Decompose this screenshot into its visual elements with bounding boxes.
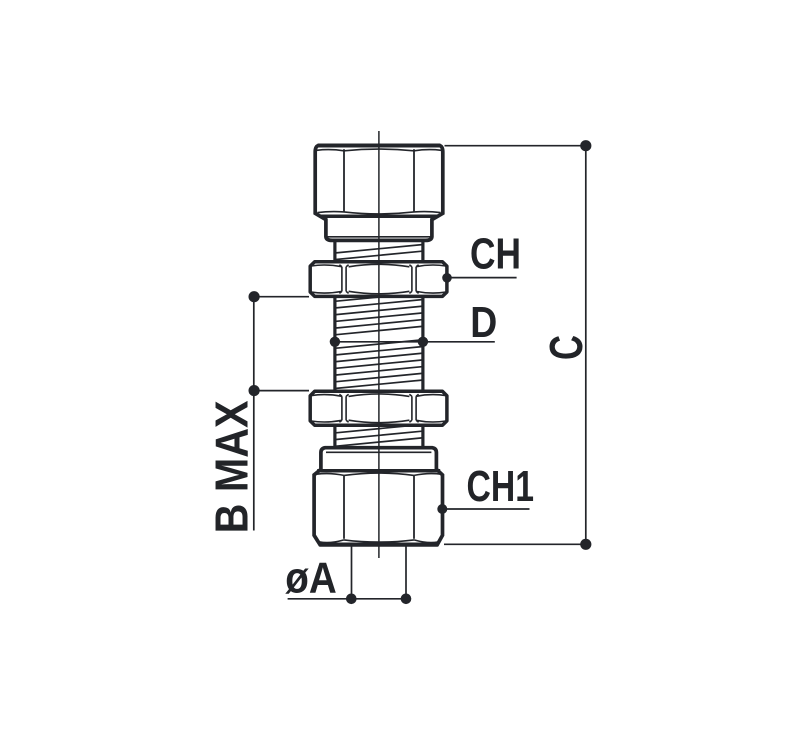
bottom nut bottom edge emphasis (320, 542, 438, 546)
B MAX bottom dot (249, 385, 260, 396)
lower bulkhead locknut facet pair right (409, 394, 418, 422)
D dimension line (335, 341, 495, 343)
lower bulkhead locknut silhouette (310, 391, 447, 425)
upper bulkhead locknut chamfer arcs (311, 264, 446, 294)
svg-text:CH: CH (470, 230, 521, 279)
bottom nut chamfer arcs top (317, 473, 442, 475)
top nut facet line left (343, 149, 345, 212)
svg-text:C: C (540, 335, 592, 360)
CH leader line (447, 277, 517, 279)
bottom nut facet line left (343, 476, 345, 539)
centerline (378, 131, 380, 558)
bottom nut silhouette (collar + hex) (314, 448, 442, 545)
main thread section (333, 296, 336, 391)
lower bulkhead locknut chamfer arcs (311, 394, 446, 423)
top nut collar bottom thin line (327, 236, 431, 238)
upper bulkhead locknut silhouette (310, 262, 447, 297)
thread section C (below lower locknut) (333, 425, 336, 447)
dimension C bottom extension line (444, 543, 586, 545)
D right dot (418, 337, 428, 347)
CH leader dot (442, 273, 452, 283)
svg-text:B MAX: B MAX (205, 400, 257, 533)
B MAX top extension line (254, 296, 309, 298)
bottom nut collar thin line (326, 451, 431, 453)
bottom nut hex top edge (317, 469, 440, 473)
diameter A right extension line (405, 547, 407, 599)
upper bulkhead locknut facet pair right (409, 265, 418, 294)
bottom nut chamfer arcs bottom (320, 540, 439, 543)
CH1 leader dot (437, 504, 447, 514)
upper bulkhead locknut facet pair left (339, 265, 348, 294)
B MAX bottom extension line (254, 390, 309, 392)
top nut top edge emphasis (318, 143, 441, 147)
top nut chamfer arcs top (317, 149, 441, 151)
thread section A (between top nut and upper locknut) (333, 241, 336, 264)
svg-text:D: D (470, 298, 497, 347)
B MAX top dot (249, 291, 260, 302)
B MAX vertical line (253, 297, 255, 531)
dimension C top dot (580, 140, 591, 151)
dimension C bottom dot (580, 539, 591, 550)
diameter A left dot (346, 594, 357, 605)
diameter A right dot (401, 594, 412, 605)
bottom nut facet line right (413, 476, 415, 539)
D left dot (330, 337, 340, 347)
top nut hex bottom edge (321, 214, 438, 218)
svg-text:CH1: CH1 (467, 462, 535, 511)
diameter A left extension line (351, 547, 353, 599)
top nut chamfer arcs bottom (318, 212, 441, 214)
svg-text:øA: øA (285, 554, 337, 603)
lower bulkhead locknut facet pair left (339, 394, 348, 422)
diameter A dimension line (288, 598, 406, 600)
dimension C vertical line (585, 146, 587, 545)
top nut facet line right (413, 149, 415, 212)
dimension C top extension line (445, 145, 586, 147)
top compression nut silhouette (315, 146, 443, 241)
CH1 leader line (442, 508, 529, 510)
